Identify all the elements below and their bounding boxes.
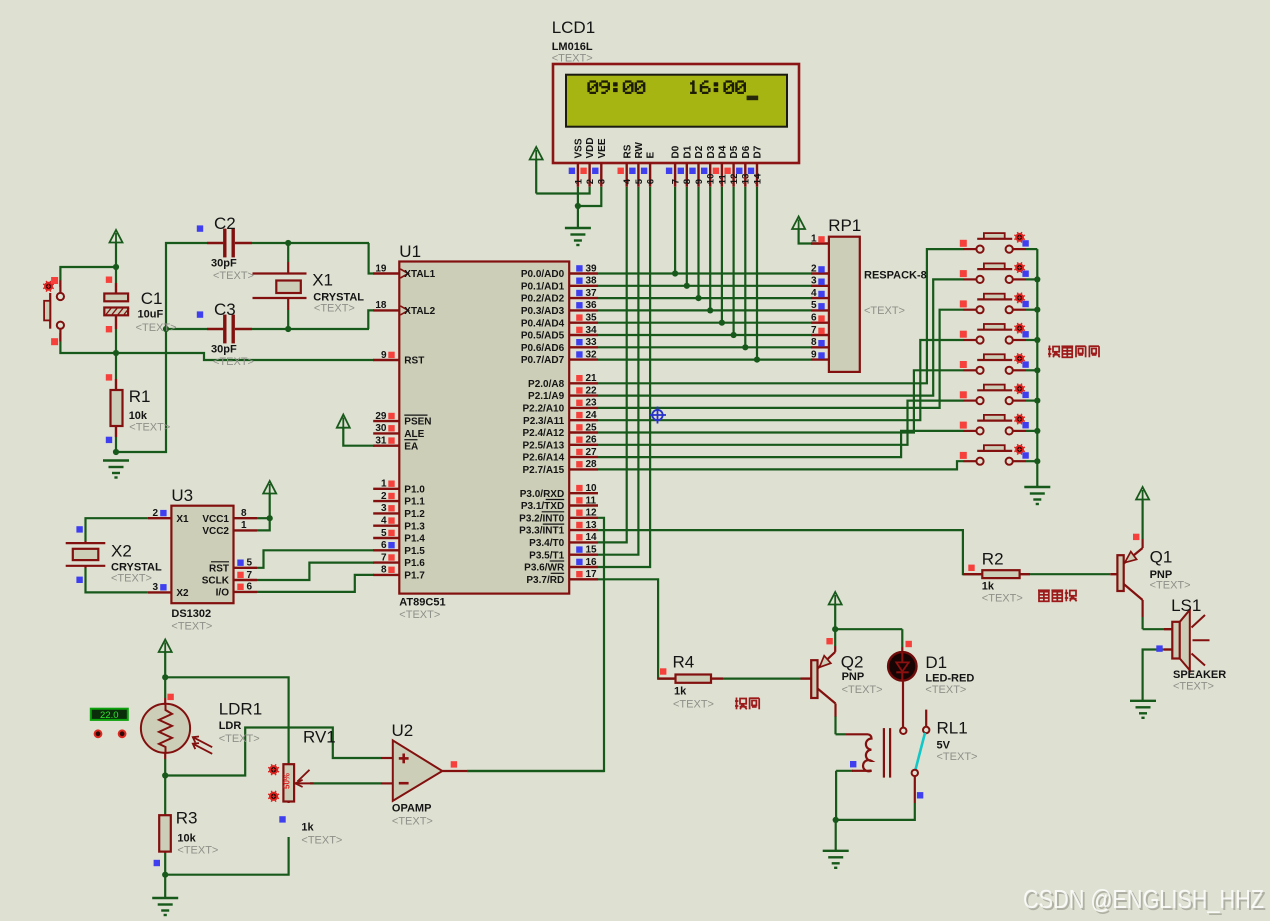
svg-text:8: 8 xyxy=(241,508,247,519)
svg-text:CRYSTAL: CRYSTAL xyxy=(313,291,364,303)
svg-text:VDD: VDD xyxy=(585,137,596,158)
svg-text:XTAL1: XTAL1 xyxy=(404,269,435,280)
svg-text:OPAMP: OPAMP xyxy=(392,803,432,815)
svg-text:<TEXT>: <TEXT> xyxy=(392,816,433,828)
svg-text:3: 3 xyxy=(811,276,817,287)
svg-text:I/O: I/O xyxy=(216,588,230,599)
svg-text:P0.1/AD1: P0.1/AD1 xyxy=(521,281,565,292)
svg-text:VEE: VEE xyxy=(597,138,608,158)
svg-text:24: 24 xyxy=(586,410,598,421)
svg-text:D7: D7 xyxy=(753,145,764,158)
svg-text:P2.7/A15: P2.7/A15 xyxy=(522,465,564,476)
svg-text:LDR: LDR xyxy=(219,720,242,732)
svg-text:ALE: ALE xyxy=(404,429,424,440)
svg-text:RST: RST xyxy=(209,563,229,574)
svg-text:4: 4 xyxy=(381,516,387,527)
svg-text:RW: RW xyxy=(634,141,645,158)
svg-text:LCD1: LCD1 xyxy=(552,18,595,37)
svg-text:13: 13 xyxy=(741,174,752,185)
svg-text:DS1302: DS1302 xyxy=(171,608,211,620)
svg-text:LDR1: LDR1 xyxy=(219,699,262,718)
svg-text:8: 8 xyxy=(811,337,817,348)
svg-text:27: 27 xyxy=(586,447,598,458)
svg-text:SPEAKER: SPEAKER xyxy=(1173,669,1226,681)
svg-text:<TEXT>: <TEXT> xyxy=(937,751,978,763)
svg-text:LED-RED: LED-RED xyxy=(925,673,974,685)
svg-text:<TEXT>: <TEXT> xyxy=(925,684,966,696)
svg-text:1k: 1k xyxy=(674,686,687,698)
svg-text:26: 26 xyxy=(586,435,598,446)
svg-text:6: 6 xyxy=(646,179,657,184)
svg-text:P1.7: P1.7 xyxy=(404,571,425,582)
svg-text:P3.6/WR: P3.6/WR xyxy=(524,563,565,574)
svg-text:P3.0/RXD: P3.0/RXD xyxy=(520,489,564,500)
svg-text:C2: C2 xyxy=(214,214,236,233)
svg-text:P1.3: P1.3 xyxy=(404,521,425,532)
svg-text:28: 28 xyxy=(586,459,598,470)
svg-text:Q2: Q2 xyxy=(841,653,864,672)
svg-text:1k: 1k xyxy=(301,822,314,834)
svg-text:14: 14 xyxy=(586,532,598,543)
svg-text:29: 29 xyxy=(375,411,387,422)
svg-text:C3: C3 xyxy=(214,300,236,319)
svg-text:10: 10 xyxy=(586,483,598,494)
svg-text:3: 3 xyxy=(152,582,158,593)
svg-text:7: 7 xyxy=(811,325,817,336)
svg-text:P2.6/A14: P2.6/A14 xyxy=(522,453,564,464)
svg-text:PNP: PNP xyxy=(842,671,865,683)
svg-text:1: 1 xyxy=(381,479,387,490)
svg-text:AT89C51: AT89C51 xyxy=(399,597,445,609)
svg-text:<TEXT>: <TEXT> xyxy=(314,303,355,315)
svg-text:P2.1/A9: P2.1/A9 xyxy=(528,391,565,402)
svg-text:2: 2 xyxy=(381,491,387,502)
svg-text:<TEXT>: <TEXT> xyxy=(673,699,714,711)
svg-text:39: 39 xyxy=(586,263,598,274)
svg-text:RS: RS xyxy=(622,144,633,158)
svg-text:P0.2/AD2: P0.2/AD2 xyxy=(521,294,565,305)
svg-text:P1.2: P1.2 xyxy=(404,509,425,520)
svg-text:P0.3/AD3: P0.3/AD3 xyxy=(521,306,565,317)
svg-text:RST: RST xyxy=(404,356,424,367)
svg-text:19: 19 xyxy=(375,263,387,274)
svg-text:8: 8 xyxy=(381,565,387,576)
svg-text:32: 32 xyxy=(586,349,598,360)
svg-text:<TEXT>: <TEXT> xyxy=(129,422,170,434)
svg-text:D1: D1 xyxy=(925,653,947,672)
svg-text:4: 4 xyxy=(622,178,633,184)
svg-text:RP1: RP1 xyxy=(828,216,861,235)
svg-text:10k: 10k xyxy=(177,833,196,845)
svg-text:R1: R1 xyxy=(129,387,151,406)
svg-text:Q1: Q1 xyxy=(1150,547,1173,566)
svg-text:X2: X2 xyxy=(111,541,132,560)
svg-text:4: 4 xyxy=(811,288,817,299)
svg-text:16: 16 xyxy=(586,557,598,568)
svg-text:R2: R2 xyxy=(982,550,1004,569)
svg-text:23: 23 xyxy=(586,398,598,409)
svg-text:P3.5/T1: P3.5/T1 xyxy=(529,550,564,561)
svg-text:P3.7/RD: P3.7/RD xyxy=(526,575,564,586)
svg-text:10uF: 10uF xyxy=(138,309,164,321)
svg-text:VCC2: VCC2 xyxy=(202,526,229,537)
svg-text:<TEXT>: <TEXT> xyxy=(177,844,218,856)
svg-text:21: 21 xyxy=(586,373,598,384)
svg-text:3: 3 xyxy=(381,503,387,514)
svg-text:6: 6 xyxy=(381,540,387,551)
svg-text:<TEXT>: <TEXT> xyxy=(1150,580,1191,592)
svg-text:X1: X1 xyxy=(312,270,333,289)
svg-text:EA: EA xyxy=(404,441,418,452)
svg-text:<TEXT>: <TEXT> xyxy=(982,592,1023,604)
svg-text:D2: D2 xyxy=(694,145,705,158)
svg-text:1k: 1k xyxy=(982,581,995,593)
svg-text:<TEXT>: <TEXT> xyxy=(864,305,905,317)
svg-text:6: 6 xyxy=(811,313,817,324)
svg-text:9: 9 xyxy=(811,349,817,360)
svg-text:5V: 5V xyxy=(937,739,951,751)
svg-text:P3.2/INT0: P3.2/INT0 xyxy=(519,513,564,524)
svg-text:12: 12 xyxy=(586,508,598,519)
svg-text:11: 11 xyxy=(717,173,728,184)
svg-text:P3.4/T0: P3.4/T0 xyxy=(529,538,564,549)
svg-text:36: 36 xyxy=(586,300,598,311)
svg-text:P3.1/TXD: P3.1/TXD xyxy=(521,501,564,512)
svg-text:VCC1: VCC1 xyxy=(202,514,229,525)
svg-text:P3.3/INT1: P3.3/INT1 xyxy=(519,526,564,537)
svg-text:P1.5: P1.5 xyxy=(404,546,425,557)
svg-text:<TEXT>: <TEXT> xyxy=(219,733,260,745)
svg-text:P0.4/AD4: P0.4/AD4 xyxy=(521,318,565,329)
svg-text:LM016L: LM016L xyxy=(552,41,593,53)
svg-text:<TEXT>: <TEXT> xyxy=(301,835,342,847)
svg-text:<TEXT>: <TEXT> xyxy=(1173,681,1214,693)
svg-text:P2.5/A13: P2.5/A13 xyxy=(522,440,564,451)
svg-text:U3: U3 xyxy=(171,486,193,505)
svg-text:D1: D1 xyxy=(682,145,693,158)
svg-text:RESPACK-8: RESPACK-8 xyxy=(864,270,927,282)
svg-text:1: 1 xyxy=(811,233,817,244)
svg-text:10: 10 xyxy=(706,174,717,185)
svg-text:5: 5 xyxy=(247,558,253,569)
svg-text:5: 5 xyxy=(381,528,387,539)
svg-text:22: 22 xyxy=(586,385,598,396)
svg-text:P0.6/AD6: P0.6/AD6 xyxy=(521,343,565,354)
svg-text:<TEXT>: <TEXT> xyxy=(213,356,254,368)
svg-text:<TEXT>: <TEXT> xyxy=(842,684,883,696)
svg-text:D6: D6 xyxy=(741,145,752,158)
svg-text:31: 31 xyxy=(375,436,387,447)
svg-text:P1.0: P1.0 xyxy=(404,484,425,495)
svg-text:30pF: 30pF xyxy=(211,344,237,356)
svg-text:2: 2 xyxy=(152,508,158,519)
svg-text:<TEXT>: <TEXT> xyxy=(111,573,152,585)
svg-text:D5: D5 xyxy=(729,145,740,158)
svg-text:9: 9 xyxy=(381,350,387,361)
svg-text:R4: R4 xyxy=(673,653,695,672)
svg-text:D0: D0 xyxy=(671,145,682,158)
svg-text:P0.7/AD7: P0.7/AD7 xyxy=(521,355,565,366)
svg-text:7: 7 xyxy=(381,552,387,563)
svg-text:3: 3 xyxy=(597,179,608,184)
svg-text:P0.5/AD5: P0.5/AD5 xyxy=(521,331,565,342)
svg-text:D3: D3 xyxy=(706,145,717,158)
svg-text:VSS: VSS xyxy=(574,138,585,158)
svg-text:P2.2/A10: P2.2/A10 xyxy=(522,404,564,415)
svg-text:33: 33 xyxy=(586,337,598,348)
svg-text:1: 1 xyxy=(573,178,584,184)
svg-text:<TEXT>: <TEXT> xyxy=(213,270,254,282)
svg-text:P2.4/A12: P2.4/A12 xyxy=(522,428,564,439)
svg-text:7: 7 xyxy=(671,179,682,184)
svg-text:P1.4: P1.4 xyxy=(404,534,425,545)
svg-text:5: 5 xyxy=(634,178,645,184)
svg-text:5: 5 xyxy=(811,300,817,311)
svg-text:14: 14 xyxy=(752,173,763,184)
svg-text:P1.6: P1.6 xyxy=(404,558,425,569)
svg-text:50%: 50% xyxy=(282,773,291,789)
svg-text:2: 2 xyxy=(585,179,596,184)
svg-text:U2: U2 xyxy=(392,721,414,740)
svg-text:30pF: 30pF xyxy=(211,258,237,270)
svg-text:R3: R3 xyxy=(176,808,198,827)
svg-text:11: 11 xyxy=(586,495,597,506)
svg-text:12: 12 xyxy=(729,174,740,185)
svg-text:6: 6 xyxy=(247,582,253,593)
svg-text:C1: C1 xyxy=(141,289,163,308)
svg-text:10k: 10k xyxy=(129,410,148,422)
svg-text:LS1: LS1 xyxy=(1171,596,1201,615)
svg-text:<TEXT>: <TEXT> xyxy=(136,322,177,334)
svg-text:35: 35 xyxy=(586,313,598,324)
svg-text:E: E xyxy=(646,152,657,159)
svg-text:XTAL2: XTAL2 xyxy=(404,306,435,317)
svg-text:X2: X2 xyxy=(176,588,189,599)
svg-text:D4: D4 xyxy=(718,145,729,158)
svg-text:CSDN @ENGLISH_HHZ: CSDN @ENGLISH_HHZ xyxy=(1023,884,1264,914)
svg-text:<TEXT>: <TEXT> xyxy=(399,609,440,621)
svg-text:SCLK: SCLK xyxy=(202,576,230,587)
svg-text:7: 7 xyxy=(247,570,253,581)
svg-text:2: 2 xyxy=(811,263,817,274)
svg-text:P2.0/A8: P2.0/A8 xyxy=(528,379,565,390)
svg-text:8: 8 xyxy=(682,179,693,184)
svg-text:37: 37 xyxy=(586,288,598,299)
svg-text:18: 18 xyxy=(375,300,387,311)
svg-text:15: 15 xyxy=(586,545,598,556)
svg-text:<TEXT>: <TEXT> xyxy=(171,621,212,633)
svg-text:RL1: RL1 xyxy=(937,718,968,737)
svg-text:38: 38 xyxy=(586,276,598,287)
svg-text:17: 17 xyxy=(586,569,598,580)
svg-text:RV1: RV1 xyxy=(303,727,336,746)
svg-text:30: 30 xyxy=(375,423,387,434)
svg-text:<TEXT>: <TEXT> xyxy=(552,53,593,65)
svg-text:1: 1 xyxy=(241,520,247,531)
svg-text:U1: U1 xyxy=(399,242,421,261)
svg-text:25: 25 xyxy=(586,422,598,433)
svg-text:X1: X1 xyxy=(176,514,189,525)
svg-text:P0.0/AD0: P0.0/AD0 xyxy=(521,269,565,280)
svg-text:P2.3/A11: P2.3/A11 xyxy=(523,416,565,427)
svg-text:34: 34 xyxy=(586,325,598,336)
svg-text:9: 9 xyxy=(694,179,705,184)
svg-text:P1.1: P1.1 xyxy=(404,497,425,508)
svg-text:22.0: 22.0 xyxy=(100,710,119,721)
svg-text:PSEN: PSEN xyxy=(404,417,431,428)
svg-text:13: 13 xyxy=(586,520,598,531)
